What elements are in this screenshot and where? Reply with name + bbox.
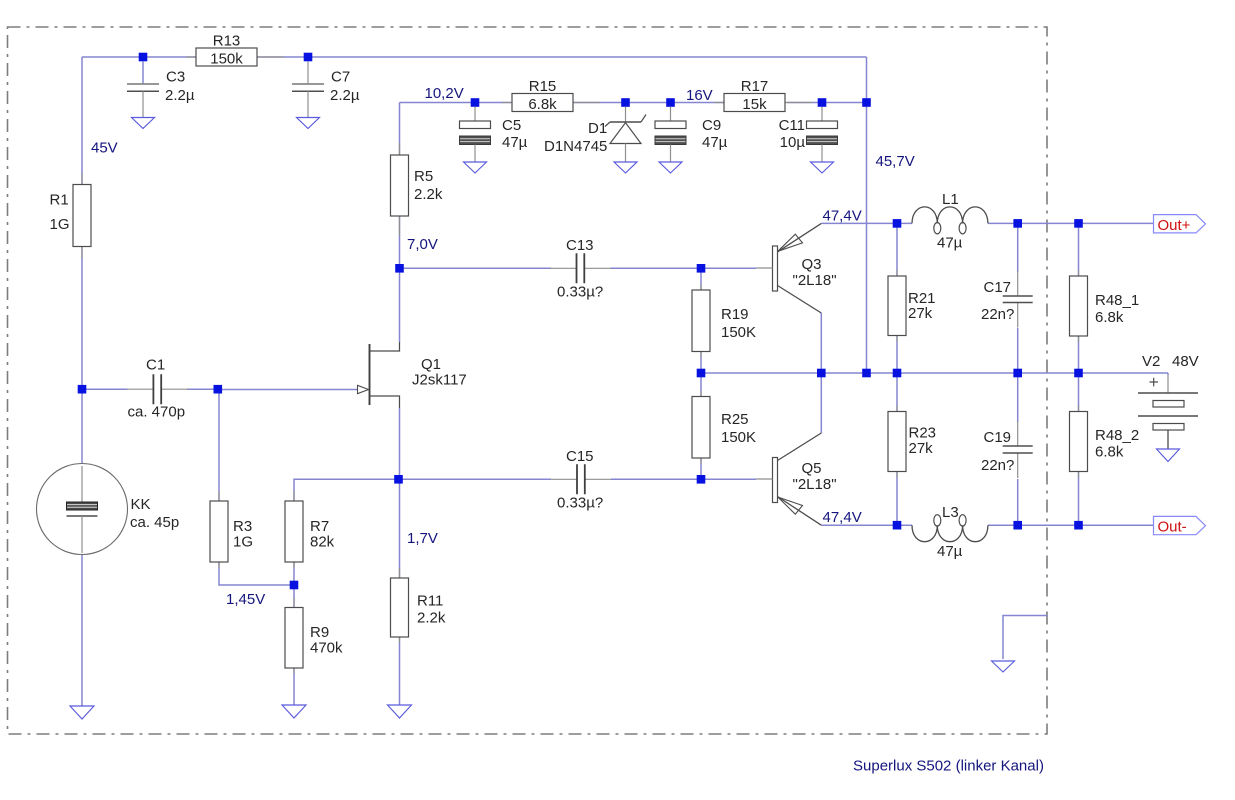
- microphone capsule KK: [37, 464, 180, 555]
- svg-text:470k: 470k: [310, 640, 343, 657]
- svg-text:C9: C9: [702, 117, 721, 134]
- svg-text:1G: 1G: [233, 534, 253, 551]
- wire net 45,7V vertical: [866, 57, 868, 373]
- svg-text:Q1: Q1: [421, 356, 441, 373]
- svg-text:47,4V: 47,4V: [823, 208, 862, 225]
- junction bus / collectors: [817, 369, 826, 378]
- svg-text:L3: L3: [942, 504, 959, 521]
- ground under C5: [464, 162, 487, 173]
- svg-text:Q3: Q3: [802, 256, 822, 273]
- resistor R15: [502, 78, 600, 113]
- svg-text:16V: 16V: [686, 87, 713, 104]
- svg-text:150K: 150K: [721, 429, 756, 446]
- inductor L1: [912, 191, 988, 252]
- capacitor C11: [779, 107, 838, 162]
- ground under C3: [132, 118, 155, 129]
- svg-text:D1N4745: D1N4745: [544, 138, 607, 155]
- svg-text:7,0V: 7,0V: [407, 236, 438, 253]
- capacitor C17: [981, 271, 1033, 328]
- svg-text:Out+: Out+: [1158, 217, 1191, 234]
- capacitor C15: [550, 448, 611, 512]
- capacitor C19: [981, 421, 1033, 478]
- wire R21 leads: [896, 223, 898, 373]
- svg-text:"2L18": "2L18": [793, 476, 837, 493]
- output port Out-: [1154, 516, 1206, 535]
- svg-text:R1: R1: [50, 192, 69, 209]
- svg-text:82k: 82k: [310, 534, 335, 551]
- svg-text:2.2µ: 2.2µ: [330, 87, 360, 104]
- JFET Q1 J2sk117: [358, 342, 467, 408]
- transistor Q5 2L18: [756, 433, 837, 525]
- svg-text:R7: R7: [310, 518, 329, 535]
- junction Out- / R23: [893, 521, 902, 530]
- capacitor C13: [550, 237, 611, 301]
- svg-text:R19: R19: [721, 306, 749, 323]
- wire net 10,2V / 16V horizontal: [400, 103, 867, 156]
- svg-text:R48_2: R48_2: [1095, 427, 1139, 444]
- output port Out+: [1154, 215, 1206, 234]
- svg-text:Out-: Out-: [1158, 519, 1187, 536]
- transistor Q3 2L18: [756, 223, 837, 313]
- resistor R1: [73, 173, 91, 259]
- svg-text:C3: C3: [166, 69, 185, 86]
- wire C17 leads: [1017, 223, 1019, 373]
- junction 45,7V line: [862, 98, 871, 107]
- svg-text:C17: C17: [984, 279, 1012, 296]
- zener diode D1: [544, 107, 646, 162]
- capacitor C3: [127, 62, 195, 118]
- junction 16V / D1: [621, 98, 630, 107]
- wire R19 leads: [700, 268, 702, 373]
- svg-text:2.2k: 2.2k: [414, 186, 443, 203]
- wire Q3 collector vertical: [820, 313, 822, 373]
- junction Q1 source / R7 / R11: [394, 475, 403, 484]
- ground under C7: [297, 118, 320, 129]
- svg-text:6.8k: 6.8k: [528, 96, 557, 113]
- junction bus / 45,7V: [862, 369, 871, 378]
- svg-text:10µ: 10µ: [780, 134, 806, 151]
- capacitor C1: [127, 357, 188, 421]
- wire Q1 source vertical: [399, 408, 401, 479]
- svg-text:10,2V: 10,2V: [425, 85, 464, 102]
- wire C1 to R3 junction segment: [187, 388, 219, 390]
- junction Out+ / R48_1: [1074, 219, 1083, 228]
- svg-text:KK: KK: [131, 496, 151, 513]
- wire Q1 drain vertical: [399, 268, 401, 342]
- resistor R7: [285, 491, 335, 568]
- svg-text:R11: R11: [417, 593, 443, 610]
- svg-text:15k: 15k: [742, 96, 767, 113]
- svg-text:47µ: 47µ: [937, 235, 963, 252]
- svg-text:C7: C7: [331, 69, 350, 86]
- svg-text:R23: R23: [909, 425, 937, 442]
- ground under R11: [388, 705, 412, 718]
- wire net 1,45V: [219, 562, 294, 585]
- wire R11 leads: [399, 479, 401, 705]
- wire Out+ line: [821, 222, 1153, 224]
- svg-text:R3: R3: [233, 518, 252, 535]
- resistor R9: [285, 598, 343, 675]
- junction C11: [818, 98, 827, 107]
- wire junction A to KK capsule: [81, 389, 83, 463]
- wire KK capsule to ground: [81, 553, 83, 706]
- svg-text:ca. 470p: ca. 470p: [128, 404, 186, 421]
- svg-text:0.33µ?: 0.33µ?: [557, 495, 603, 512]
- svg-text:R25: R25: [721, 411, 749, 428]
- svg-text:48V: 48V: [1172, 353, 1199, 370]
- wire R25 leads: [700, 373, 702, 479]
- wire Q1 gate segment: [219, 389, 357, 391]
- ground under R9: [282, 705, 306, 718]
- ground under D1: [614, 162, 637, 173]
- capacitor C5: [460, 107, 528, 162]
- wire R23 leads: [896, 373, 898, 525]
- resistor R19: [692, 284, 756, 358]
- svg-text:J2sk117: J2sk117: [412, 372, 467, 389]
- junction C15 / R25 / Q5 base: [697, 475, 706, 484]
- wire R7 bottom lead: [293, 562, 295, 585]
- wire net 45V vertical (left rail): [81, 57, 83, 185]
- resistor R48_2: [1070, 406, 1140, 478]
- resistor R25: [692, 391, 756, 465]
- resistor R21: [888, 270, 936, 342]
- svg-text:Superlux S502 (linker Kanal): Superlux S502 (linker Kanal): [853, 758, 1044, 775]
- junction 7,0V node: [395, 264, 404, 273]
- resistor R5: [391, 143, 443, 236]
- junction KK / C1: [78, 385, 87, 394]
- svg-text:C5: C5: [502, 117, 521, 134]
- wire battery V2 ground stem: [1167, 373, 1169, 375]
- resistor R48_1: [1070, 270, 1140, 342]
- junction Out- / C19: [1013, 521, 1022, 530]
- junction 10,2V / C5: [471, 98, 480, 107]
- schematic frame (dash-dot border): [8, 27, 1048, 734]
- battery V2 48V: [1138, 353, 1199, 449]
- svg-text:47µ: 47µ: [502, 134, 528, 151]
- junction Out+ / R21: [893, 219, 902, 228]
- svg-text:D1: D1: [588, 120, 607, 137]
- capacitor C7: [292, 62, 360, 118]
- wire R48_1 leads: [1078, 223, 1080, 373]
- svg-text:R9: R9: [310, 624, 329, 641]
- wire Q5 collector vertical: [820, 373, 822, 433]
- svg-text:ca. 45p: ca. 45p: [130, 514, 179, 531]
- svg-text:27k: 27k: [909, 440, 934, 457]
- svg-text:2.2µ: 2.2µ: [165, 87, 195, 104]
- inductor L3: [912, 504, 988, 560]
- chassis ground right side: [992, 661, 1015, 672]
- svg-text:47µ: 47µ: [702, 134, 728, 151]
- junction top bus / C3: [139, 53, 148, 62]
- junction bus / C17-C19: [1013, 369, 1022, 378]
- svg-text:150k: 150k: [210, 50, 243, 67]
- junction Out- / R48_2: [1074, 521, 1083, 530]
- wire top bus 45V to 45,7V corner: [82, 56, 867, 58]
- svg-text:27k: 27k: [908, 305, 933, 322]
- wire R48_2 leads: [1078, 373, 1080, 525]
- svg-text:"2L18": "2L18": [793, 272, 837, 289]
- junction bus / R48: [1074, 369, 1083, 378]
- resistor R3: [210, 491, 253, 568]
- ground under C11: [811, 162, 834, 173]
- svg-text:C11: C11: [779, 117, 805, 134]
- resistor R13: [186, 33, 284, 68]
- svg-text:R48_1: R48_1: [1095, 292, 1139, 309]
- svg-text:1G: 1G: [50, 216, 70, 233]
- svg-text:47µ: 47µ: [937, 543, 963, 560]
- wire C19 leads: [1017, 373, 1019, 525]
- svg-text:R5: R5: [414, 168, 433, 185]
- wire R7 top lead and y=479 line left: [294, 479, 551, 501]
- svg-text:C19: C19: [984, 429, 1012, 446]
- junction 16V / C9: [666, 98, 675, 107]
- svg-text:2.2k: 2.2k: [417, 610, 446, 627]
- wire Out- line: [821, 524, 1153, 526]
- junction C1 / R3 / Q1 gate: [214, 385, 223, 394]
- ground under battery V2: [1157, 449, 1180, 462]
- resistor R23: [888, 406, 936, 478]
- wire R3 top lead: [218, 389, 220, 501]
- junction C13 / R19 / Q3 base: [697, 264, 706, 273]
- resistor R11: [391, 568, 446, 643]
- wire to chassis ground at frame edge: [1003, 616, 1047, 660]
- svg-text:Q5: Q5: [802, 460, 822, 477]
- junction bus / R19-R25: [697, 369, 706, 378]
- wire C1 net left segment: [82, 388, 128, 390]
- svg-text:47,4V: 47,4V: [823, 509, 862, 526]
- svg-text:0.33µ?: 0.33µ?: [557, 284, 603, 301]
- svg-text:R13: R13: [213, 33, 241, 50]
- ground under KK capsule: [70, 706, 94, 719]
- wire R9 leads: [293, 585, 295, 705]
- svg-text:6.8k: 6.8k: [1095, 309, 1124, 326]
- svg-text:C13: C13: [566, 237, 594, 254]
- svg-text:L1: L1: [942, 191, 959, 208]
- svg-text:C1: C1: [146, 357, 165, 374]
- svg-text:1,7V: 1,7V: [407, 530, 438, 547]
- wire y=479 line right (C15 to Q5 base): [611, 478, 756, 480]
- svg-text:R17: R17: [741, 78, 769, 95]
- wire middle bus 48V: [701, 372, 1168, 374]
- capacitor C9: [655, 107, 728, 162]
- wire R1 bottom to junction A: [81, 247, 83, 390]
- svg-text:45V: 45V: [91, 140, 118, 157]
- resistor R17: [714, 78, 812, 113]
- junction 1,45V node: [290, 581, 299, 590]
- svg-text:R15: R15: [529, 78, 557, 95]
- svg-text:22n?: 22n?: [981, 457, 1014, 474]
- svg-text:45,7V: 45,7V: [876, 153, 915, 170]
- junction bus / R21-R23: [893, 369, 902, 378]
- svg-text:150K: 150K: [721, 324, 756, 341]
- svg-text:V2: V2: [1142, 353, 1160, 370]
- svg-text:6.8k: 6.8k: [1095, 444, 1124, 461]
- ground under C9: [659, 162, 682, 173]
- svg-text:1,45V: 1,45V: [226, 591, 265, 608]
- junction Out+ / C17: [1013, 219, 1022, 228]
- junction top bus / C7: [304, 53, 313, 62]
- svg-text:C15: C15: [566, 448, 594, 465]
- wire net 7,0V horizontal: [400, 216, 757, 268]
- svg-text:22n?: 22n?: [981, 306, 1014, 323]
